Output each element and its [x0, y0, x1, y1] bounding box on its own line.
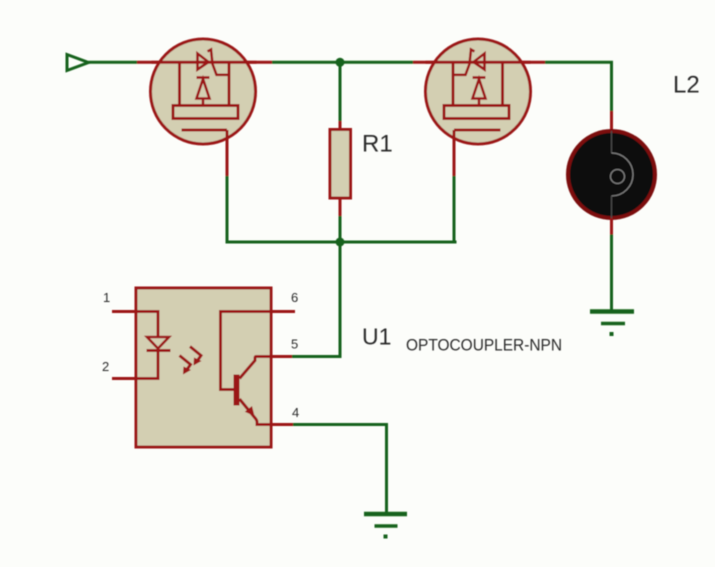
light arrow 1: [190, 347, 202, 366]
svg-text:1: 1: [103, 290, 110, 305]
optocoupler U1: [112, 288, 295, 447]
wire bottom rail: [226, 241, 457, 244]
wire lamp to ground (red stub then green): [610, 218, 613, 235]
input terminal: [67, 55, 89, 71]
emitter arrowhead: [245, 406, 255, 416]
emitter wire to pin 4: [240, 399, 294, 425]
resistor R1: [330, 130, 351, 199]
transistor Q2: [426, 39, 531, 144]
light arrow 2: [180, 356, 192, 375]
node B bottom junction: [336, 238, 345, 247]
pin 1 stub and LED anode wire: [112, 312, 158, 338]
svg-text:4: 4: [292, 405, 299, 420]
ground (opto): [364, 514, 407, 539]
wire node A to R1 (green then red stub): [339, 62, 342, 121]
svg-text:5: 5: [291, 337, 298, 352]
wire node B down to U1 pin 5: [292, 242, 340, 357]
lamp L2: [568, 131, 655, 218]
wire red stub into Q1 and across Q1: [137, 61, 272, 64]
wire R1 to node B (red stub then green): [339, 198, 342, 216]
wire U1 pin 4 to ground (green): [293, 425, 387, 513]
wire Q1 to node A (green): [272, 61, 413, 64]
svg-text:OPTOCOUPLER-NPN: OPTOCOUPLER-NPN: [406, 337, 562, 355]
node A top junction: [336, 58, 345, 67]
ground (lamp): [590, 312, 634, 337]
wire Q1 gate down (red then green): [226, 130, 229, 176]
svg-text:R1: R1: [362, 131, 393, 158]
wire Q2 to lamp corner (green): [545, 62, 612, 111]
collector wire to pin 5: [240, 357, 293, 379]
transistor base bar: [234, 375, 240, 406]
svg-text:2: 2: [102, 359, 109, 374]
wire red stub into lamp top: [610, 111, 613, 131]
wire Q2 gate down (red then green): [453, 130, 456, 176]
pin 2 stub and LED cathode wire: [112, 351, 158, 379]
svg-text:L2: L2: [673, 72, 700, 99]
svg-text:U1: U1: [362, 324, 391, 350]
wire input to Q1 (green): [89, 61, 138, 64]
wire red stub into Q2 and across Q2: [413, 61, 545, 64]
pin 6 stub and base wire: [221, 312, 296, 390]
transistor Q1: [151, 39, 257, 144]
LED diode: [147, 337, 169, 349]
svg-text:6: 6: [291, 290, 298, 305]
